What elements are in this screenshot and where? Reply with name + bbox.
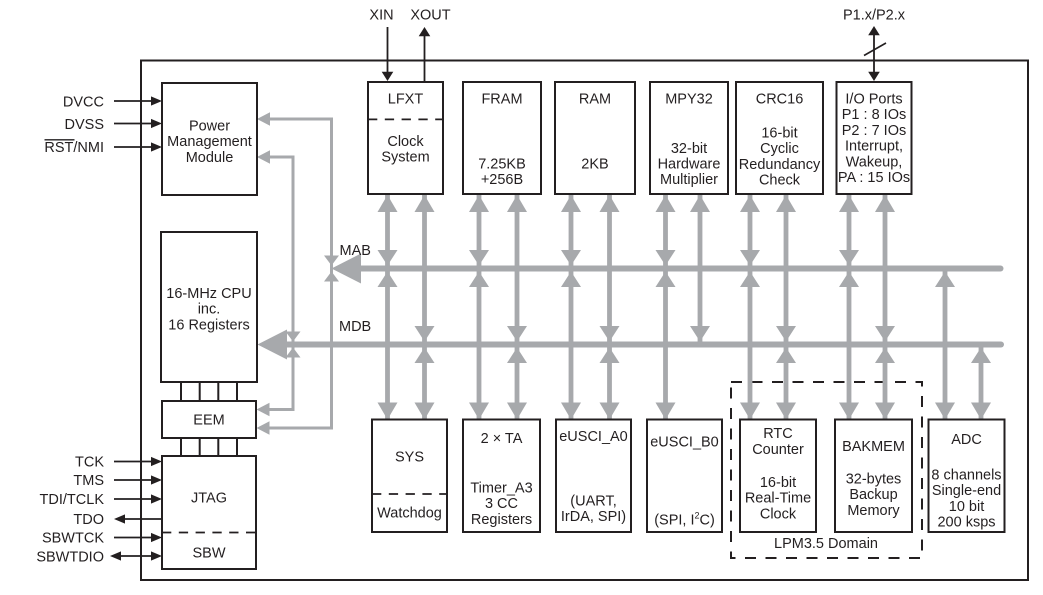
wire TDO	[114, 514, 162, 523]
wire EEM-JTAG connectors	[181, 438, 237, 456]
wire CPU-EEM connectors	[181, 382, 237, 401]
svg-text:3 CC: 3 CC	[485, 496, 518, 512]
wire DVSS	[114, 119, 162, 128]
svg-text:RAM: RAM	[579, 92, 611, 108]
svg-text:PA : 15 IOs: PA : 15 IOs	[838, 170, 910, 186]
svg-text:Management: Management	[167, 134, 252, 150]
svg-text:LFXT: LFXT	[388, 92, 424, 108]
svg-text:MDB: MDB	[339, 319, 371, 335]
svg-text:Wakeup,: Wakeup,	[846, 154, 903, 170]
svg-text:RST/NMI: RST/NMI	[44, 140, 104, 156]
wire SBWTDIO	[110, 551, 162, 560]
svg-text:LPM3.5 Domain: LPM3.5 Domain	[774, 536, 878, 552]
block eUSCI_A0	[556, 420, 631, 533]
svg-text:Power: Power	[189, 119, 230, 135]
svg-text:10 bit: 10 bit	[949, 499, 984, 515]
svg-text:TMS: TMS	[73, 473, 104, 489]
svg-text:32-bit: 32-bit	[671, 141, 707, 157]
block FRAM	[463, 82, 541, 194]
block CRC16	[736, 82, 823, 194]
block ADC	[929, 420, 1005, 533]
svg-text:Clock: Clock	[760, 506, 797, 522]
svg-text:2KB: 2KB	[581, 156, 608, 172]
svg-text:Counter: Counter	[752, 442, 804, 458]
svg-text:Check: Check	[759, 173, 801, 189]
svg-text:Timer_A3: Timer_A3	[470, 481, 532, 497]
outer device boundary	[141, 61, 1028, 581]
wire TCK	[114, 457, 162, 466]
wire LFXT/SYS address column (to MAB)	[378, 195, 398, 420]
svg-text:8 channels: 8 channels	[931, 468, 1001, 484]
svg-text:DVCC: DVCC	[63, 95, 104, 111]
svg-text:(SPI, I2C): (SPI, I2C)	[654, 511, 715, 529]
svg-text:200 ksps: 200 ksps	[937, 515, 995, 531]
wire MPY32/eUSCI_B0 data column (to MDB)	[690, 195, 710, 345]
wire IOports/BAKMEM address column (to MAB)	[839, 195, 859, 420]
wire ADC data column (from MDB)	[971, 345, 991, 420]
svg-text:TDO: TDO	[73, 512, 104, 528]
wire TMS	[114, 475, 162, 484]
svg-text:32-bytes: 32-bytes	[846, 471, 902, 487]
svg-text:inc.: inc.	[198, 302, 221, 318]
wire FRAM/TA data column (to MDB)	[507, 195, 527, 420]
svg-text:EEM: EEM	[193, 413, 224, 429]
svg-text:P2 : 7 IOs: P2 : 7 IOs	[842, 123, 906, 139]
wire LFXT/SYS data column (to MDB)	[415, 195, 435, 420]
svg-text:ADC: ADC	[951, 432, 982, 448]
LPM3.5 domain boundary (dashed)	[731, 382, 922, 558]
wire TDI/TCLK	[114, 494, 162, 503]
svg-text:SBWTDIO: SBWTDIO	[36, 550, 104, 566]
bus MDB	[258, 330, 1002, 360]
svg-text:RTC: RTC	[763, 426, 793, 442]
svg-text:DVSS: DVSS	[65, 117, 105, 133]
svg-text:MAB: MAB	[340, 243, 371, 259]
svg-text:CRC16: CRC16	[756, 92, 804, 108]
block JTAG / SBW	[162, 456, 256, 569]
block 2 x TA	[463, 420, 540, 533]
wire ADC address column (from MAB)	[935, 269, 955, 420]
svg-text:Redundancy: Redundancy	[739, 157, 821, 173]
svg-text:+256B: +256B	[481, 172, 523, 188]
wire SBWTCK	[114, 533, 162, 542]
wire CRC16/RTC data column (to MDB)	[776, 195, 796, 420]
svg-text:XIN: XIN	[369, 8, 393, 24]
block RTC Counter	[740, 420, 816, 533]
svg-text:Memory: Memory	[847, 503, 900, 519]
svg-text:MPY32: MPY32	[665, 92, 713, 108]
wire DVCC	[114, 96, 162, 105]
svg-text:SBWTCK: SBWTCK	[42, 531, 104, 547]
block LFXT / Clock System	[368, 82, 443, 194]
block 16-MHz CPU	[161, 232, 257, 382]
svg-text:IrDA, SPI): IrDA, SPI)	[561, 509, 626, 525]
block SYS / Watchdog	[372, 420, 447, 533]
svg-text:16 Registers: 16 Registers	[168, 317, 249, 333]
svg-text:16-bit: 16-bit	[760, 475, 796, 491]
svg-text:2 × TA: 2 × TA	[481, 431, 523, 447]
wire XIN input	[382, 27, 394, 81]
wire MAB tap to PMM and EEM	[257, 112, 340, 435]
svg-text:JTAG: JTAG	[191, 491, 227, 507]
svg-text:FRAM: FRAM	[481, 92, 522, 108]
wire CRC16/RTC address column (to MAB)	[740, 195, 760, 420]
svg-text:XOUT: XOUT	[410, 8, 450, 24]
svg-text:TCK: TCK	[75, 455, 104, 471]
block RAM	[555, 82, 635, 194]
block I/O Ports	[837, 82, 912, 194]
wire IOports/BAKMEM data column (to MDB)	[875, 195, 895, 420]
block BAKMEM	[835, 420, 912, 533]
wire RAM/eUSCI_A0 address column (to MAB)	[561, 195, 581, 420]
svg-text:System: System	[381, 150, 429, 166]
svg-text:P1.x/P2.x: P1.x/P2.x	[843, 8, 906, 24]
wire P1.x/P2.x port (bidirectional, with bus-width slash)	[864, 26, 886, 81]
svg-text:eUSCI_B0: eUSCI_B0	[650, 435, 719, 451]
svg-text:Backup: Backup	[849, 487, 897, 503]
svg-text:16-MHz CPU: 16-MHz CPU	[166, 286, 251, 302]
svg-text:Real-Time: Real-Time	[745, 491, 811, 507]
svg-text:SBW: SBW	[192, 546, 225, 562]
svg-text:BAKMEM: BAKMEM	[842, 439, 905, 455]
block Power Management Module	[162, 83, 257, 195]
svg-text:TDI/TCLK: TDI/TCLK	[40, 492, 105, 508]
svg-text:Watchdog: Watchdog	[377, 505, 442, 521]
wire XOUT output	[419, 27, 431, 82]
bus MAB	[332, 254, 1001, 284]
svg-text:(UART,: (UART,	[570, 494, 616, 510]
svg-text:Cyclic: Cyclic	[760, 141, 799, 157]
svg-text:Multiplier: Multiplier	[660, 172, 718, 188]
wire RAM/eUSCI_A0 data column (to MDB)	[600, 195, 620, 420]
svg-text:Interrupt,: Interrupt,	[845, 139, 903, 155]
svg-text:Clock: Clock	[387, 134, 424, 150]
svg-text:P1 : 8 IOs: P1 : 8 IOs	[842, 107, 906, 123]
svg-text:eUSCI_A0: eUSCI_A0	[559, 429, 628, 445]
svg-text:Registers: Registers	[471, 512, 532, 528]
wire RST/NMI	[114, 142, 162, 151]
svg-text:Module: Module	[186, 150, 234, 166]
block MPY32	[650, 82, 728, 194]
block eUSCI_B0	[647, 420, 722, 533]
block EEM	[162, 401, 256, 438]
svg-text:I/O Ports: I/O Ports	[845, 92, 902, 108]
wire FRAM/TA address column (to MAB)	[469, 195, 489, 420]
svg-text:7.25KB: 7.25KB	[478, 156, 526, 172]
svg-text:Hardware: Hardware	[658, 157, 721, 173]
svg-text:16-bit: 16-bit	[761, 125, 797, 141]
wire clock-request to PMM and EEM (via MDB tap)	[257, 150, 301, 416]
wire MPY32/eUSCI_B0 address column (to MAB)	[656, 195, 676, 420]
svg-text:Single-end: Single-end	[932, 483, 1001, 499]
svg-text:SYS: SYS	[395, 449, 424, 465]
